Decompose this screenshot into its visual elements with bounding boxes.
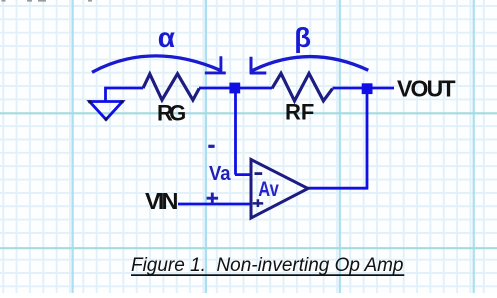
svg-text:RG: RG [157, 101, 186, 126]
svg-text:Va: Va [209, 163, 231, 185]
svg-text:Av: Av [258, 178, 279, 201]
svg-text:α: α [158, 22, 175, 53]
svg-text:VIN: VIN [145, 188, 179, 214]
svg-text:VOUT: VOUT [397, 76, 456, 102]
svg-text:β: β [294, 22, 311, 53]
svg-text:Figure 1. Non-inverting Op Am: Figure 1. Non-inverting Op Amp [131, 254, 404, 276]
svg-text:RF: RF [285, 100, 314, 125]
